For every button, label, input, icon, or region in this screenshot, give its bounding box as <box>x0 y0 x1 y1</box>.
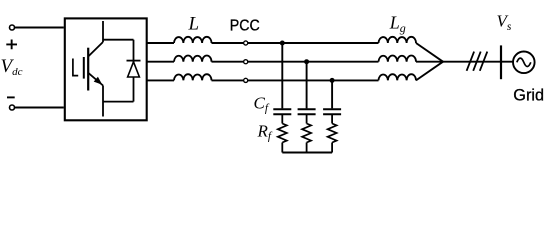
svg-text:Grid: Grid <box>513 86 544 104</box>
svg-text:L: L <box>188 13 200 34</box>
svg-text:PCC: PCC <box>230 17 260 34</box>
